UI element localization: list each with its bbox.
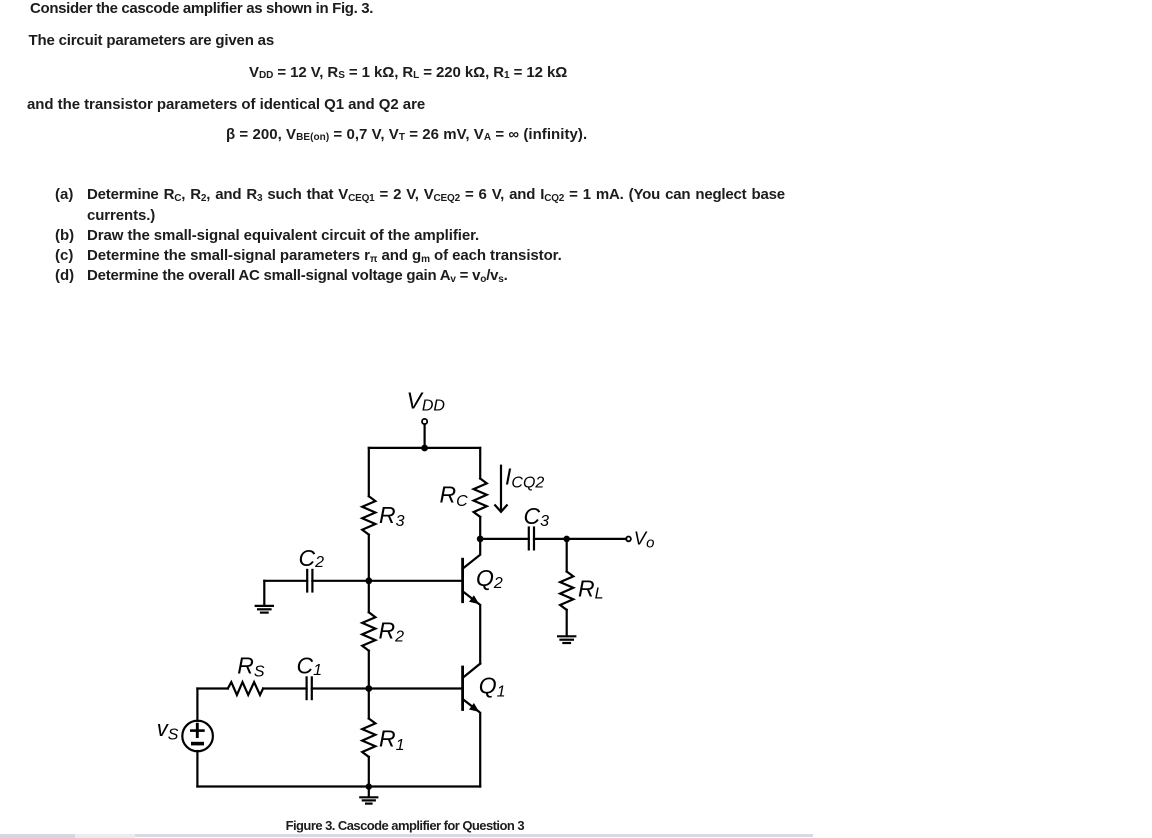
svg-text:R2: R2 xyxy=(379,618,405,646)
svg-text:vS: vS xyxy=(157,716,179,744)
svg-text:ICQ2: ICQ2 xyxy=(505,463,544,491)
svg-text:RC: RC xyxy=(440,481,469,510)
svg-text:Q2: Q2 xyxy=(476,565,503,592)
svg-text:C2: C2 xyxy=(299,545,325,571)
svg-text:Q1: Q1 xyxy=(479,673,506,701)
svg-text:R1: R1 xyxy=(379,726,405,754)
svg-text:Vo: Vo xyxy=(634,528,655,552)
svg-text:R3: R3 xyxy=(379,502,405,530)
svg-text:RS: RS xyxy=(237,652,265,680)
svg-text:C3: C3 xyxy=(524,503,550,530)
svg-text:C1: C1 xyxy=(297,652,323,679)
svg-text:VDD: VDD xyxy=(407,388,446,415)
svg-text:RL: RL xyxy=(578,575,604,602)
